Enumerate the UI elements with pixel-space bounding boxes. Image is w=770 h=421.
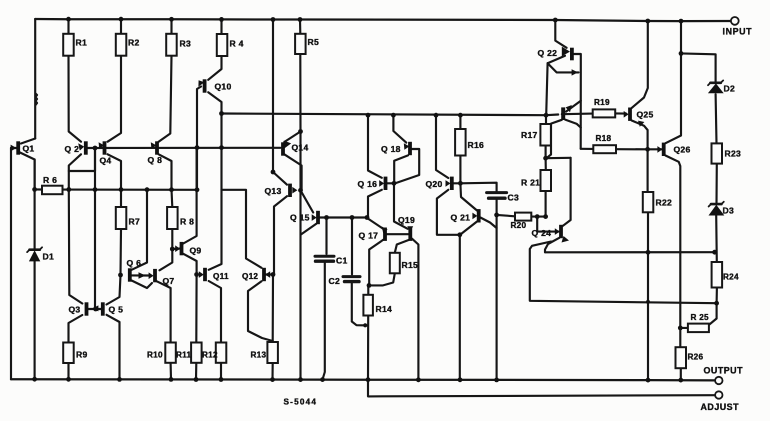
svg-text:Q 16: Q 16 xyxy=(358,179,378,189)
svg-text:ADJUST: ADJUST xyxy=(701,402,740,412)
svg-text:Q10: Q10 xyxy=(215,82,232,92)
svg-text:R17: R17 xyxy=(521,130,538,140)
svg-text:Q19: Q19 xyxy=(398,215,415,225)
svg-text:R 4: R 4 xyxy=(230,39,244,49)
svg-text:R14: R14 xyxy=(376,304,393,314)
svg-text:Q 2: Q 2 xyxy=(65,144,80,154)
svg-text:Q20: Q20 xyxy=(426,179,443,189)
svg-text:Q11: Q11 xyxy=(213,272,229,281)
svg-text:Q1: Q1 xyxy=(23,144,35,154)
svg-text:D1: D1 xyxy=(43,252,55,262)
svg-text:R7: R7 xyxy=(129,217,141,227)
svg-text:Q 8: Q 8 xyxy=(148,155,163,165)
svg-text:R22: R22 xyxy=(656,198,673,208)
svg-text:Q 17: Q 17 xyxy=(359,231,379,241)
svg-text:Q12: Q12 xyxy=(242,272,258,281)
svg-text:Q3: Q3 xyxy=(69,305,81,315)
svg-text:Q 24: Q 24 xyxy=(532,228,552,238)
svg-text:R 25: R 25 xyxy=(691,313,709,322)
svg-text:R26: R26 xyxy=(688,353,704,362)
svg-text:R12: R12 xyxy=(202,351,218,360)
svg-text:Q14: Q14 xyxy=(292,143,309,153)
svg-text:R10: R10 xyxy=(147,351,163,360)
svg-text:S-5044: S-5044 xyxy=(284,398,318,407)
svg-text:R13: R13 xyxy=(251,351,267,360)
svg-text:INPUT: INPUT xyxy=(723,27,753,37)
svg-text:Q 22: Q 22 xyxy=(538,48,558,58)
svg-text:Q4: Q4 xyxy=(100,156,112,166)
svg-text:Q 18: Q 18 xyxy=(381,144,401,154)
svg-text:Q7: Q7 xyxy=(163,276,175,286)
svg-text:R3: R3 xyxy=(180,39,192,49)
svg-text:C2: C2 xyxy=(329,276,341,286)
svg-text:R11: R11 xyxy=(176,351,192,360)
svg-text:Q 6: Q 6 xyxy=(127,258,142,268)
svg-text:R 8: R 8 xyxy=(180,217,194,227)
svg-text:D2: D2 xyxy=(724,84,736,94)
svg-text:R9: R9 xyxy=(76,350,88,360)
svg-text:C1: C1 xyxy=(336,256,348,266)
svg-text:Q9: Q9 xyxy=(190,246,202,256)
svg-text:R19: R19 xyxy=(594,98,610,107)
svg-text:C3: C3 xyxy=(508,193,520,203)
svg-text:R 21: R 21 xyxy=(521,178,540,188)
svg-text:R 6: R 6 xyxy=(43,175,57,185)
svg-text:OUTPUT: OUTPUT xyxy=(704,366,744,376)
svg-text:Q26: Q26 xyxy=(674,145,691,155)
svg-text:Q 21: Q 21 xyxy=(451,213,471,223)
svg-text:R16: R16 xyxy=(468,140,485,150)
svg-text:Q25: Q25 xyxy=(637,110,654,120)
svg-text:Q13: Q13 xyxy=(265,186,282,196)
svg-text:R23: R23 xyxy=(725,149,742,159)
svg-text:R15: R15 xyxy=(402,260,419,270)
svg-text:R24: R24 xyxy=(723,273,739,282)
svg-text:Q 5: Q 5 xyxy=(109,305,124,315)
svg-text:R18: R18 xyxy=(596,134,612,143)
svg-text:R1: R1 xyxy=(76,38,88,48)
svg-text:D3: D3 xyxy=(723,206,735,216)
svg-text:R5: R5 xyxy=(308,37,320,47)
svg-text:R20: R20 xyxy=(511,221,527,230)
svg-text:Q 15: Q 15 xyxy=(290,213,310,223)
svg-text:R2: R2 xyxy=(128,38,140,48)
